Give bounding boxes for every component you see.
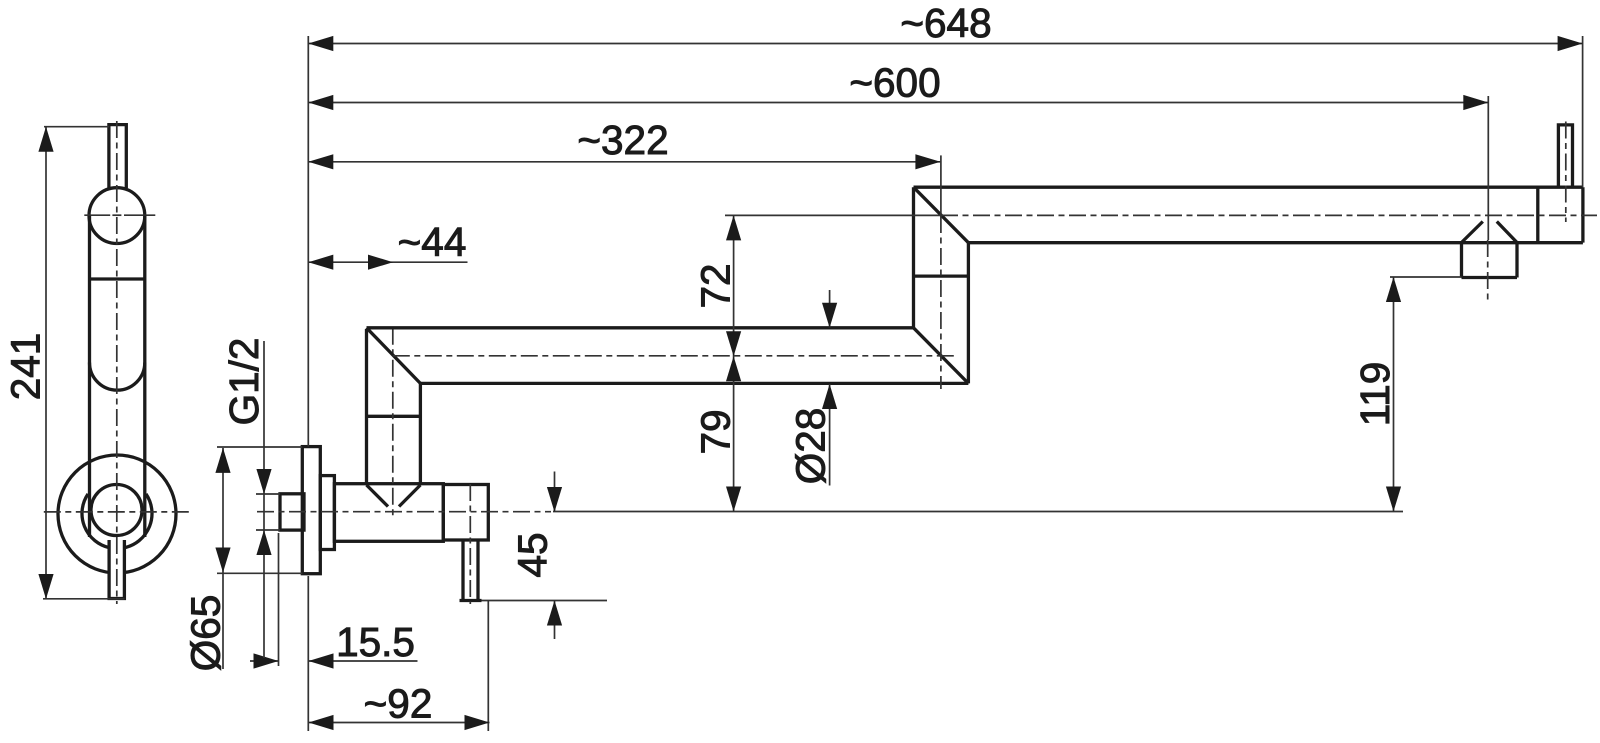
svg-text:~92: ~92 xyxy=(364,681,433,727)
svg-text:Ø28: Ø28 xyxy=(788,408,834,485)
svg-text:~600: ~600 xyxy=(849,60,940,106)
svg-text:15.5: 15.5 xyxy=(336,619,415,665)
svg-text:72: 72 xyxy=(693,263,739,308)
svg-text:45: 45 xyxy=(510,532,556,577)
svg-text:241: 241 xyxy=(3,333,49,401)
svg-text:Ø65: Ø65 xyxy=(183,595,229,672)
svg-text:G1/2: G1/2 xyxy=(221,338,267,426)
svg-text:~648: ~648 xyxy=(900,0,991,46)
svg-text:~322: ~322 xyxy=(577,117,668,163)
svg-text:~44: ~44 xyxy=(398,219,467,265)
svg-text:79: 79 xyxy=(693,409,739,454)
svg-text:119: 119 xyxy=(1352,362,1398,427)
